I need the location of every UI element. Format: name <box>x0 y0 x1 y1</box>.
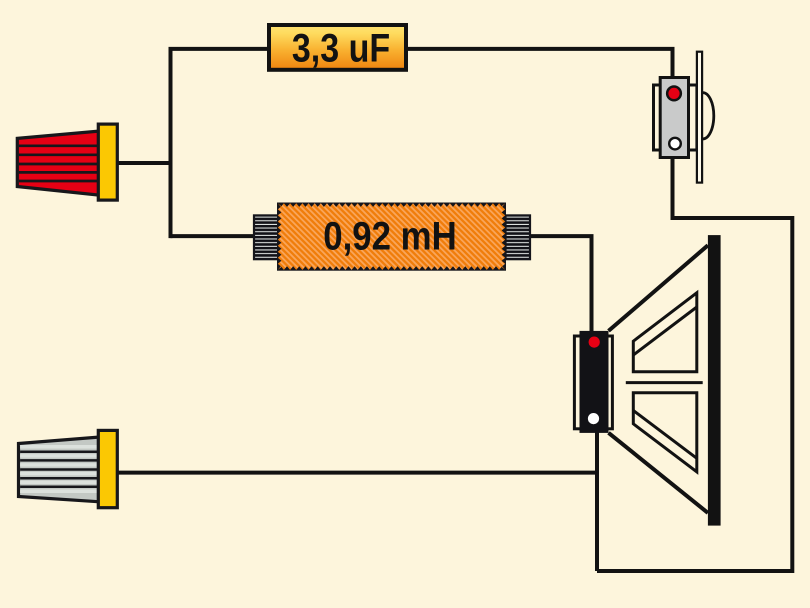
inductor L1 0,92 mH <box>254 203 530 271</box>
coil end left <box>254 215 279 259</box>
tweeter faceplate <box>697 52 702 183</box>
woofer cone lower panel inner line <box>633 411 697 459</box>
wire: input minus terminal to bottom node <box>117 471 599 475</box>
woofer minus terminal <box>588 413 599 424</box>
woofer plus terminal <box>589 337 600 348</box>
woofer cone bottom edge <box>609 433 708 513</box>
woofer cone upper panel <box>633 293 697 372</box>
capacitor C1 3,3 uF <box>269 25 406 70</box>
woofer cone lower panel <box>633 393 697 472</box>
svg-text:3,3 uF: 3,3 uF <box>292 25 390 70</box>
tweeter dome <box>703 93 714 139</box>
woofer bracket <box>574 336 612 429</box>
coil end right <box>506 215 531 259</box>
woofer baffle <box>708 235 721 525</box>
woofer magnet <box>580 331 609 433</box>
woofer cone upper panel inner line <box>633 307 697 355</box>
wire: capacitor to tweeter plus <box>407 49 673 78</box>
tweeter plus terminal <box>667 87 681 101</box>
input terminal positive (red) <box>10 124 117 200</box>
tweeter magnet <box>660 78 688 158</box>
woofer <box>574 235 720 525</box>
wire: junction to inductor <box>171 234 257 238</box>
wire: woofer minus drop <box>595 432 599 571</box>
tweeter <box>654 52 714 183</box>
tweeter bracket <box>654 85 697 150</box>
input terminal negative (gray) <box>10 430 117 507</box>
inductor body <box>277 203 506 271</box>
wire: junction vertical and top branch to capacitor <box>171 49 268 238</box>
wire: input plus terminal to junction <box>117 161 173 165</box>
wire: inductor to woofer plus <box>529 236 592 332</box>
wire: tweeter minus down right rail to bottom <box>597 157 792 572</box>
svg-text:0,92 mH: 0,92 mH <box>323 213 456 258</box>
woofer cone top edge <box>609 245 708 331</box>
tweeter minus terminal <box>669 138 681 150</box>
woofer cone middle line <box>626 381 703 384</box>
